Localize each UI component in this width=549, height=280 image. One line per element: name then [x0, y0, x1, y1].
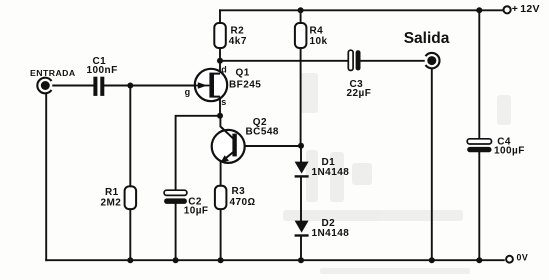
ground terminal 0V — [506, 256, 513, 263]
wire bias node to D1 anode — [300, 146, 302, 162]
wire R1 top lead — [129, 86, 131, 187]
svg-text:BC548: BC548 — [246, 126, 279, 137]
capacitor C4 (electrolytic) — [467, 139, 491, 144]
svg-text:s: s — [221, 97, 226, 107]
wire output terminal down to ground rail — [431, 68, 433, 260]
svg-text:470Ω: 470Ω — [230, 197, 256, 208]
wire R1 bottom lead — [129, 209, 131, 260]
node junction R1 ground — [127, 257, 133, 263]
wire R2 bottom lead — [219, 48, 221, 61]
wire C2 bottom lead — [175, 204, 177, 260]
wire C4 bottom lead — [478, 152, 480, 260]
wire R2 top lead — [219, 10, 221, 23]
capacitor C3 (electrolytic) — [348, 50, 353, 70]
wire drain rail to C3 — [220, 60, 348, 62]
wire D2 cathode to ground rail — [300, 237, 302, 261]
supply terminal +12V — [504, 6, 511, 13]
wire supply node down to C4 — [478, 10, 480, 139]
transistor Q1 (JFET BF245) — [195, 69, 227, 101]
svg-text:Salida: Salida — [404, 30, 450, 47]
svg-text:2M2: 2M2 — [101, 198, 122, 209]
svg-text:10k: 10k — [310, 36, 328, 47]
diode D1 (1N4148) — [295, 162, 309, 178]
resistor R3 — [215, 186, 227, 209]
node junction source — [217, 113, 223, 119]
svg-text:R3: R3 — [232, 186, 246, 197]
svg-text:10µF: 10µF — [184, 206, 209, 217]
wire input to C1 — [53, 85, 93, 87]
wire source node to C2 branch — [176, 116, 220, 190]
node junction supply/C4 — [476, 7, 482, 13]
resistor R1 — [125, 186, 137, 209]
node junction R2/drain — [217, 58, 223, 64]
wire Q1 source lead — [219, 97, 221, 116]
node junction output ground — [429, 257, 435, 263]
svg-text:100µF: 100µF — [494, 145, 525, 156]
wire R4 top lead — [300, 10, 302, 23]
svg-text:R1: R1 — [105, 187, 119, 198]
svg-text:Q1: Q1 — [236, 68, 250, 79]
wire top supply rail — [220, 9, 503, 11]
wire Q2 collector lead — [220, 116, 233, 139]
wire R3 bottom lead — [220, 209, 222, 260]
resistor R2 — [214, 23, 226, 48]
wire C3 to output terminal — [361, 60, 424, 62]
svg-text:R2: R2 — [231, 26, 245, 37]
wire ground rail — [46, 259, 504, 261]
wire Q2 base to bias node — [237, 145, 301, 147]
capacitor C2 (electrolytic) — [164, 190, 187, 195]
svg-text:g: g — [185, 87, 191, 97]
node junction R4 top rail — [298, 7, 304, 13]
wire Q1 drain lead — [219, 61, 221, 74]
svg-text:d: d — [221, 64, 227, 74]
input terminal ENTRADA — [37, 78, 51, 94]
wire Q2 emitter lead down to R3 — [220, 162, 222, 186]
svg-text:4k7: 4k7 — [229, 36, 247, 47]
node junction D2 ground — [298, 257, 304, 263]
svg-text:R4: R4 — [310, 26, 324, 37]
svg-text:100nF: 100nF — [87, 65, 118, 76]
node junction C2 ground — [173, 257, 179, 263]
capacitor C1 — [93, 77, 104, 96]
faint scan bleed-through artifacts — [283, 73, 511, 274]
svg-text:22µF: 22µF — [347, 88, 372, 99]
node junction gate/R1 — [127, 83, 133, 89]
wire input terminal down to ground rail — [45, 94, 47, 261]
output terminal Salida — [426, 53, 440, 68]
node junction C4 ground — [476, 257, 482, 263]
wire C1 to Q1 gate — [104, 85, 209, 87]
diode D2 (1N4148) — [295, 221, 309, 237]
node junction R3 ground — [218, 257, 224, 263]
svg-text:BF245: BF245 — [229, 80, 261, 91]
svg-text:1N4148: 1N4148 — [312, 228, 350, 239]
resistor R4 — [295, 23, 307, 48]
svg-text:0V: 0V — [517, 253, 529, 263]
svg-text:ENTRADA: ENTRADA — [30, 68, 76, 78]
svg-text:+12V: +12V — [512, 3, 540, 15]
node junction bias/base — [298, 143, 304, 149]
wire D1 cathode to D2 anode — [300, 178, 302, 221]
transistor Q2 (BC548) — [212, 127, 245, 163]
wire R4 bottom lead to bias node — [300, 48, 302, 146]
